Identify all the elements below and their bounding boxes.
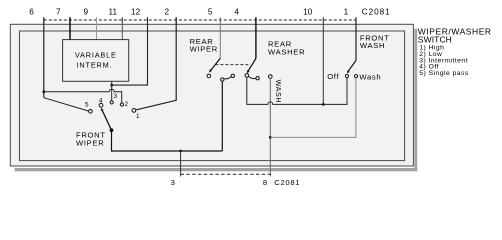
front wiper pivot dot <box>110 128 114 132</box>
wire contact G down to pin 8 <box>269 78 271 176</box>
contact 4 <box>99 103 103 107</box>
wire pin 11 <box>121 17 123 40</box>
pin 4 tick <box>255 17 257 22</box>
pin 1 tick <box>355 17 357 22</box>
pin 5 tick <box>219 17 221 22</box>
wire pin 6 vertical <box>43 17 45 97</box>
wire pin 3 bottom <box>180 151 182 176</box>
svg-text:WASH: WASH <box>360 41 385 50</box>
svg-text:1: 1 <box>344 8 349 17</box>
svg-text:11: 11 <box>109 8 118 17</box>
svg-text:Wash: Wash <box>359 73 381 82</box>
svg-text:WIPER: WIPER <box>190 45 218 54</box>
contact 1 <box>132 109 136 113</box>
svg-text:4: 4 <box>99 97 103 104</box>
svg-text:WIPER: WIPER <box>76 138 104 147</box>
inner box <box>20 31 405 161</box>
svg-text:6: 6 <box>29 8 34 17</box>
svg-text:10: 10 <box>303 8 313 17</box>
wire pin 5 <box>219 17 221 58</box>
pin 10 tick <box>322 17 324 22</box>
wire pin 9 <box>96 17 98 40</box>
front wash contact Off <box>345 74 348 77</box>
svg-text:INTERM.: INTERM. <box>77 60 113 69</box>
wire pin 4 <box>255 17 257 58</box>
pin 12 tick <box>147 17 149 22</box>
pin 2 tick <box>175 17 177 22</box>
svg-text:C2081: C2081 <box>362 8 391 17</box>
svg-text:1: 1 <box>136 113 140 120</box>
svg-text:2: 2 <box>125 101 129 108</box>
svg-text:C2081: C2081 <box>274 178 300 187</box>
svg-text:5: 5 <box>85 102 89 109</box>
pin 9 tick <box>96 17 98 22</box>
wire pin 6 diagonal to contact 5 <box>44 98 90 112</box>
junction dot pin10 <box>322 103 325 106</box>
svg-text:WASH: WASH <box>274 80 283 104</box>
pin 6 tick <box>43 17 45 22</box>
junction dot pin12/stub <box>110 84 113 87</box>
junction dot pin3 <box>179 150 182 153</box>
wire pin 1 <box>355 17 357 60</box>
mechanical link dashed <box>215 64 248 66</box>
wire pin 10 <box>322 17 324 104</box>
pivot to common wire <box>112 130 223 151</box>
rear washer to off wire with hop over G <box>247 77 347 104</box>
contact 2 <box>120 103 123 106</box>
top pin number labels <box>29 8 348 17</box>
junction dot G/wash <box>269 136 272 139</box>
bottom labels <box>171 178 301 187</box>
front wiper arm <box>102 110 112 130</box>
svg-text:3: 3 <box>114 93 118 100</box>
contact labels <box>85 93 140 120</box>
svg-text:5) Single pass: 5) Single pass <box>419 70 469 77</box>
svg-text:7: 7 <box>56 8 61 17</box>
rear washer contact C <box>245 74 249 78</box>
svg-text:WASHER: WASHER <box>268 47 305 56</box>
pin 11 tick <box>121 17 123 22</box>
rear wiper switch arm <box>211 58 221 70</box>
contact 5 <box>89 110 93 114</box>
wire pin 12 down and left to stub <box>112 17 148 85</box>
pin 7 tick <box>69 17 71 22</box>
connector C2081 top dashed line <box>44 19 356 21</box>
switch name labels <box>76 34 390 148</box>
stub variable box to contact 3 <box>111 81 113 101</box>
svg-text:Off: Off <box>327 72 339 81</box>
wash wire horizontal to front wash contact <box>270 78 356 138</box>
feed wire with hop over stub <box>44 89 122 104</box>
svg-text:12: 12 <box>131 8 141 17</box>
rear wiper contact E <box>231 74 234 77</box>
svg-text:SWITCH: SWITCH <box>418 34 452 44</box>
arc contact B to E <box>224 77 231 79</box>
rear washer contact G <box>269 75 273 79</box>
svg-text:2: 2 <box>165 8 170 17</box>
outer box <box>10 24 413 166</box>
arc contact C to F <box>249 76 256 78</box>
contact 3 <box>110 101 113 104</box>
wire contact B down to common <box>221 81 223 151</box>
svg-text:3: 3 <box>171 178 175 187</box>
svg-text:5: 5 <box>208 8 213 17</box>
svg-text:9: 9 <box>84 8 89 17</box>
variable interm box <box>63 40 129 82</box>
rear wiper contact A <box>207 74 211 78</box>
rear wiper contact B <box>221 78 224 81</box>
rear washer switch arm <box>248 59 256 72</box>
svg-text:8: 8 <box>263 178 267 187</box>
outer box shadow <box>414 29 417 172</box>
svg-text:4: 4 <box>234 8 239 17</box>
front wash contact Wash <box>354 75 357 78</box>
front wash switch arm <box>348 60 356 71</box>
bottom connector dashed line <box>181 173 272 175</box>
junction dot pin6/feed <box>42 90 45 93</box>
rear washer contact F <box>256 77 259 80</box>
svg-text:VARIABLE: VARIABLE <box>75 51 117 60</box>
wire pin 7 <box>69 17 71 40</box>
wire pin 2 down and diagonal to contact 1 <box>134 17 176 110</box>
